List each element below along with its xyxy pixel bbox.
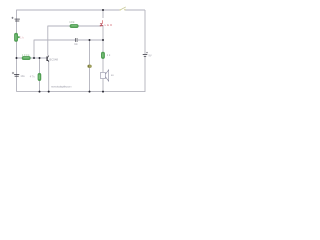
resistor R1 (14, 33, 17, 41)
resistor R1 band stub (18, 36, 20, 38)
transistor Q1 emitter lead (48, 60, 49, 61)
capacitor C2 plus sign (12, 72, 14, 74)
capacitor C3 plates (74, 38, 77, 42)
junction bottom rail x=48.7 (48, 91, 50, 93)
resistor R2 (70, 24, 78, 27)
resistor R4 (38, 73, 41, 81)
junction x=34 on base feed (33, 57, 35, 59)
svg-text:47k: 47k (30, 75, 36, 78)
svg-text:LED: LED (105, 24, 113, 27)
wire base rail y=40 right of C3 (78, 39, 103, 41)
wire vertical x=39.5 to R4 (39, 58, 41, 92)
svg-text:BC548: BC548 (49, 57, 58, 61)
svg-text:9V: 9V (148, 53, 151, 57)
diode D1 (88, 65, 92, 68)
transistor Q1 base bar (47, 56, 48, 61)
capacitor C1 plates (15, 18, 20, 21)
junction base rail / left rail (16, 57, 18, 59)
junction bottom rail x=89.5 (89, 91, 91, 93)
wire vertical x=34 (33, 40, 35, 58)
wire diode branch vertical x=89.5 (89, 40, 91, 92)
junction diode branch top (89, 39, 91, 41)
wire right vertical rail (144, 10, 146, 54)
transistor Q1 collector lead (48, 55, 49, 57)
wire base rail y=40 left of C3 (34, 39, 75, 41)
wire below speaker x=103 (102, 79, 104, 92)
junction top rail / LED branch (102, 9, 104, 11)
junction bottom rail x=39.5 (39, 91, 41, 93)
capacitor C1 plus sign (11, 17, 13, 19)
LED LED1 (102, 20, 104, 23)
svg-text:www.circuitsgallery.com: www.circuitsgallery.com (51, 85, 72, 89)
wire LED branch vertical x=103 (102, 10, 104, 18)
wire right vertical rail below battery (144, 57, 146, 92)
speaker SPK1 box (101, 72, 106, 78)
switch SW1 terminals (120, 9, 122, 11)
junction x=39.5 on base feed (39, 57, 41, 59)
speaker SPK1 cone (105, 70, 108, 81)
svg-text:10k: 10k (69, 20, 75, 24)
wire collector vertical x=47.8 (47, 26, 49, 56)
wire below LED x=103 (102, 25, 104, 72)
wire bottom rail (17, 91, 146, 93)
wire collector rail y=26 (48, 25, 101, 27)
junction LED branch y=40 (102, 39, 104, 41)
wire emitter vertical (48, 61, 50, 91)
resistor R3 (22, 56, 30, 59)
background (0, 0, 155, 100)
switch SW1 lever (120, 7, 126, 10)
battery BAT1 short plate (144, 55, 146, 58)
svg-text:10u: 10u (20, 74, 25, 78)
battery BAT1 long plate (143, 53, 148, 56)
svg-text:8R: 8R (111, 75, 114, 77)
wire base feed y=58 (17, 57, 47, 59)
capacitor C2 plates (14, 73, 19, 76)
wire top rail right of switch (125, 9, 145, 11)
battery BAT1 plus sign (146, 52, 148, 54)
wire left vertical rail (16, 10, 18, 92)
resistor R5 (101, 52, 104, 59)
svg-text:100k: 100k (22, 53, 30, 57)
junction bottom rail x=103 (102, 91, 104, 93)
wire top rail left of switch (17, 9, 121, 11)
